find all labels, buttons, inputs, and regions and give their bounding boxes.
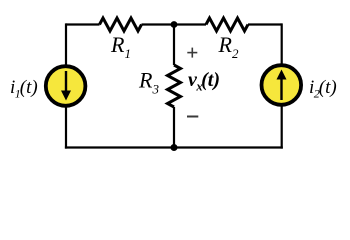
- wire left branch: [65, 23, 67, 148]
- minus sign: [187, 116, 198, 118]
- svg-text:R1: R1: [110, 32, 131, 61]
- wire middle branch: [173, 25, 175, 148]
- wire top rail: [66, 23, 282, 25]
- current source I1: [46, 66, 86, 106]
- svg-text:vx(t): vx(t): [188, 69, 220, 94]
- plus sign: [187, 48, 197, 58]
- svg-text:R2: R2: [218, 32, 239, 61]
- node B bottom junction: [171, 144, 178, 151]
- svg-text:R3: R3: [138, 68, 159, 97]
- svg-text:i2(t): i2(t): [309, 77, 337, 101]
- resistor R2: [206, 18, 248, 31]
- wire right branch: [281, 23, 283, 148]
- wire bottom rail: [65, 146, 283, 148]
- resistor R3: [168, 65, 181, 107]
- svg-text:i1(t): i1(t): [10, 77, 38, 101]
- current source I2: [262, 65, 302, 105]
- node A top junction: [171, 21, 178, 28]
- resistor R1: [100, 18, 142, 31]
